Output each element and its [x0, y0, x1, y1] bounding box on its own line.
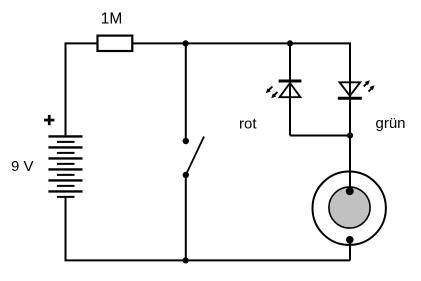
- LED D2 (gruen) triangle, pointing down: [340, 82, 361, 96]
- node D junction dot (switch branch on bottom rail): [183, 257, 189, 263]
- LED D1 light arrow 1: [266, 87, 273, 94]
- wire: bottom rail from sensor back to battery: [66, 197, 351, 261]
- wire: switch bottom contact down to bottom rail: [185, 175, 187, 260]
- sensor E1 outer electrode ring: [313, 172, 386, 245]
- wire: LED bottom rail: [290, 135, 350, 137]
- switch S1 blade (open): [186, 137, 204, 176]
- wire: resistor to node A: [133, 42, 186, 44]
- wire: battery + terminal up and along top rail to resistor: [66, 43, 98, 136]
- battery B1 plates: [48, 136, 82, 197]
- wire: node A to node B: [186, 42, 290, 44]
- node A junction dot (top of switch branch): [183, 40, 189, 46]
- LED D1 (rot) cathode bar: [279, 80, 302, 83]
- svg-text:grün: grün: [376, 115, 406, 132]
- wire: node B along top and down to green LED: [290, 43, 350, 135]
- LED D2 light arrow 2: [369, 85, 375, 91]
- wire: node B down through red LED to LED bottom rail: [289, 43, 291, 135]
- node C junction dot (LED rail meets sensor branch): [347, 132, 353, 138]
- LED D2 light arrow 1: [364, 80, 370, 86]
- wire: sensor bottom contact down over ring to bottom rail: [349, 240, 351, 261]
- sensor E1 inner electrode disc: [329, 187, 370, 228]
- LED D2 (gruen) cathode bar: [338, 97, 362, 100]
- battery + polarity mark: [44, 115, 54, 125]
- switch S1 top contact dot: [183, 138, 189, 144]
- resistor R1 (1M) body: [98, 36, 133, 51]
- sensor bottom contact dot: [346, 236, 354, 244]
- wire: node A down to switch top contact: [185, 43, 187, 141]
- node B junction dot (top of red LED branch): [287, 40, 293, 46]
- svg-text:9 V: 9 V: [11, 158, 34, 175]
- wire: node C down over ring to sensor top contact: [349, 136, 351, 192]
- svg-text:rot: rot: [239, 115, 257, 132]
- LED D1 (rot) triangle, pointing up: [280, 83, 301, 97]
- sensor top contact dot: [346, 187, 354, 195]
- LED D1 light arrow 2: [271, 92, 277, 98]
- svg-text:1M: 1M: [101, 10, 123, 27]
- switch S1 bottom contact dot: [183, 172, 189, 178]
